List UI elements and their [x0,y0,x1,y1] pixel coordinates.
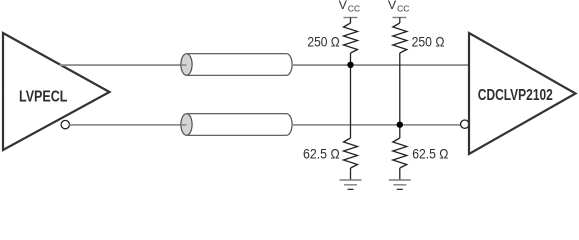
node A junction dot (left rail on top line) [347,62,353,68]
inverting bubble on U1 OUT- [61,120,69,128]
wire U1 OUT+ to transmission line T1 [60,64,187,66]
svg-text:62.5 Ω: 62.5 Ω [303,146,340,161]
svg-text:V: V [339,0,348,12]
inverting bubble on U2 IN- [461,120,469,128]
svg-text:CC: CC [397,5,410,14]
supply VCC bar (right) [393,17,407,19]
wire T1 to node A (top signal line) [292,64,469,66]
resistor R1 250 ohm (left pull-up) [344,23,358,53]
transmission line T2 (bottom coax) [181,114,292,136]
transmission line T1 (top coax) [181,54,292,76]
svg-text:CC: CC [348,5,361,14]
svg-text:V: V [388,0,397,12]
ground symbol (right) [389,180,411,190]
wire T2 to node B (bottom signal line) [292,124,461,126]
wire VCC to resistor R2 [399,18,401,24]
svg-text:250 Ω: 250 Ω [307,34,339,49]
resistor R2 250 ohm (right pull-up) [393,23,407,53]
receiver U2 CDCLVP2102 triangle [469,33,576,154]
wire VCC to resistor R1 [350,18,352,24]
resistor R4 62.5 ohm (right pull-down) [393,138,407,168]
wire R3 to ground [350,168,352,180]
svg-text:LVPECL: LVPECL [19,88,68,105]
wire R2 across top line to node B and R4 [399,53,401,138]
driver U1 LVPECL triangle [3,33,110,150]
ground symbol (left) [340,180,362,190]
wire R4 to ground [399,168,401,180]
wire R1 to node A and down to R3 [350,53,352,138]
node B junction dot (right rail on bottom line) [397,122,403,128]
svg-text:CDCLVP2102: CDCLVP2102 [478,87,553,104]
supply VCC bar (left) [344,17,358,19]
svg-text:62.5 Ω: 62.5 Ω [412,146,448,161]
wire U1 OUT- to transmission line T2 [70,124,187,126]
resistor R3 62.5 ohm (left pull-down) [344,138,358,168]
svg-text:250 Ω: 250 Ω [412,34,445,49]
